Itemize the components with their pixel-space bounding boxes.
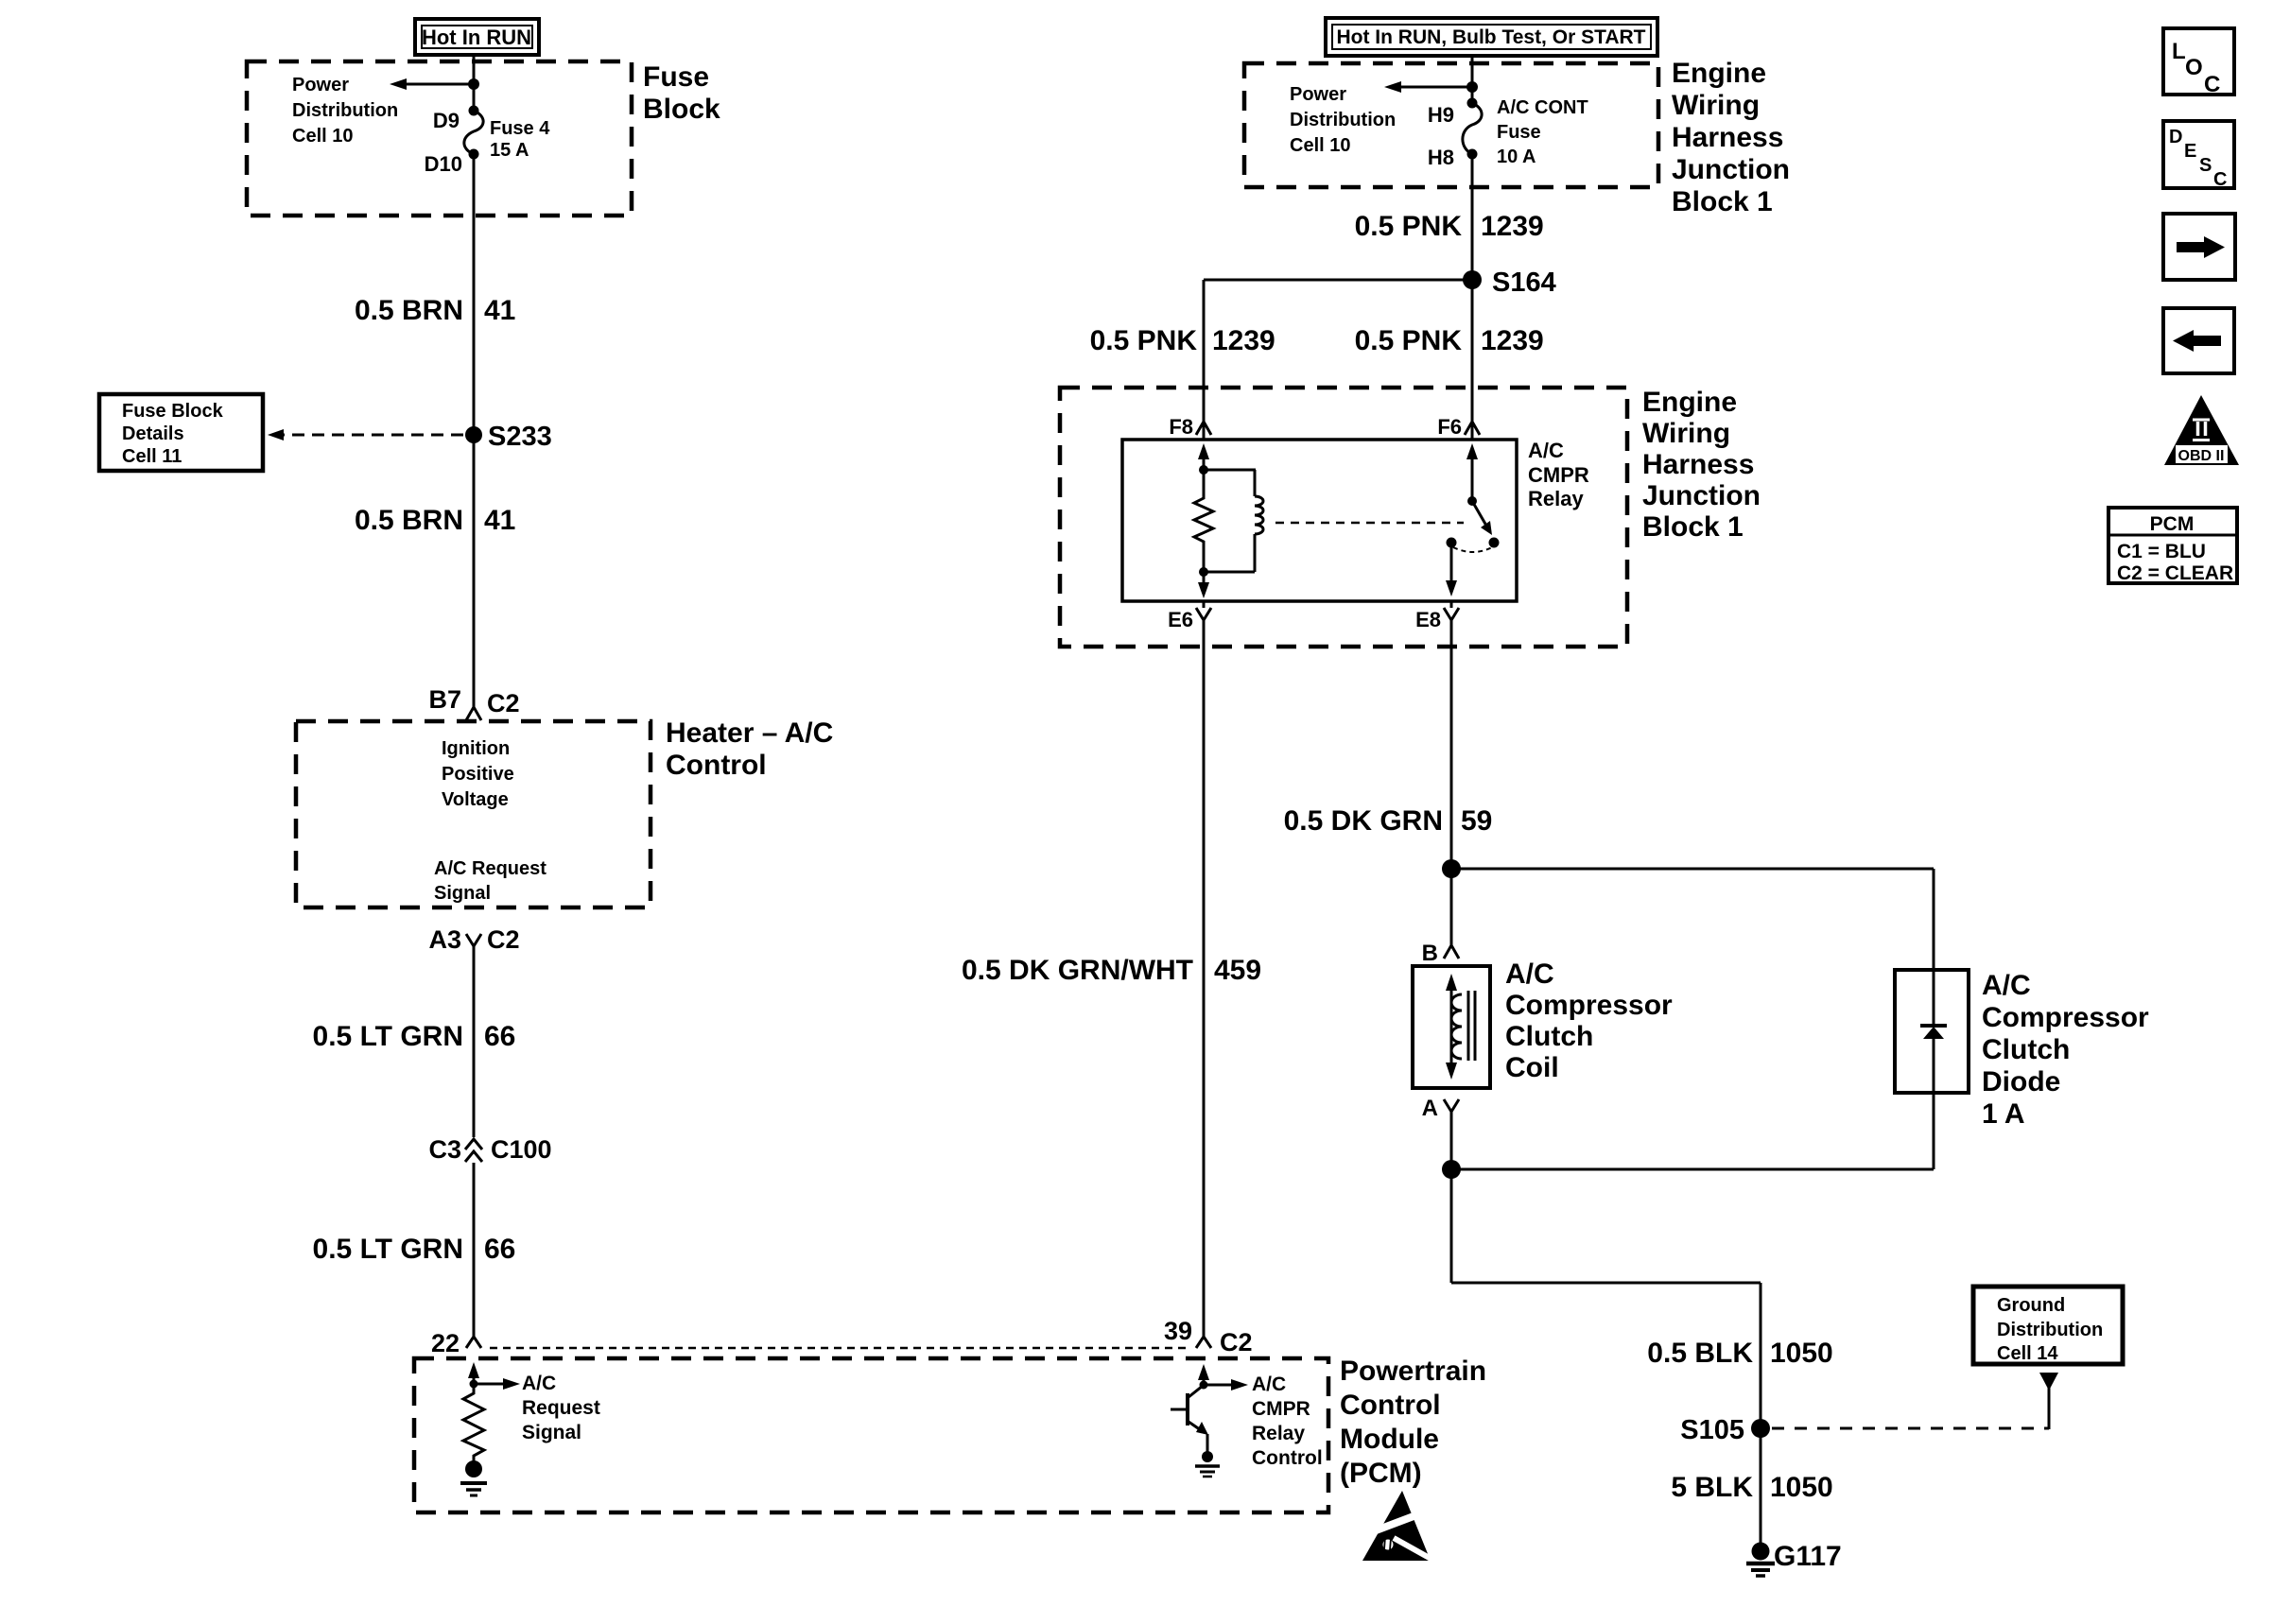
svg-text:C: C bbox=[2204, 72, 2220, 97]
svg-text:Hot In RUN: Hot In RUN bbox=[422, 26, 531, 49]
svg-text:41: 41 bbox=[484, 295, 515, 326]
svg-text:Distribution: Distribution bbox=[292, 100, 398, 121]
svg-text:PCM: PCM bbox=[2150, 513, 2195, 535]
wire 0.5 PNK 1239 (fuse to S164) bbox=[1471, 154, 1474, 280]
svg-text:59: 59 bbox=[1461, 805, 1492, 837]
svg-text:A/C: A/C bbox=[1252, 1373, 1286, 1395]
svg-text:H9: H9 bbox=[1428, 103, 1454, 127]
relay common input arrow (F6 side) bbox=[1466, 443, 1478, 506]
svg-text:C3: C3 bbox=[428, 1135, 461, 1164]
svg-text:Cell 14: Cell 14 bbox=[1997, 1343, 2058, 1364]
wire 0.5 LT GRN 66 (C100 to PCM pin 22) bbox=[473, 1163, 476, 1337]
svg-text:F8: F8 bbox=[1169, 415, 1193, 439]
svg-text:Fuse Block: Fuse Block bbox=[122, 401, 224, 422]
svg-text:0.5 PNK: 0.5 PNK bbox=[1355, 325, 1463, 356]
svg-text:A3: A3 bbox=[428, 925, 461, 954]
svg-text:A/C: A/C bbox=[522, 1373, 556, 1394]
svg-text:E8: E8 bbox=[1415, 608, 1441, 631]
icon arrow right bbox=[2163, 214, 2235, 280]
svg-text:D9: D9 bbox=[433, 109, 460, 132]
label box Fuse Block Details Cell 11 bbox=[99, 394, 263, 471]
svg-text:Diode: Diode bbox=[1982, 1066, 2060, 1097]
svg-text:1050: 1050 bbox=[1770, 1338, 1833, 1369]
svg-text:Power: Power bbox=[1290, 84, 1346, 105]
svg-text:Coil: Coil bbox=[1505, 1052, 1559, 1083]
svg-text:C2: C2 bbox=[487, 689, 520, 717]
svg-text:C2 = CLEAR: C2 = CLEAR bbox=[2117, 562, 2233, 584]
relay contact dots and travel arc bbox=[1447, 538, 1500, 553]
svg-text:22: 22 bbox=[431, 1329, 460, 1357]
svg-text:Fuse: Fuse bbox=[643, 61, 709, 93]
svg-text:39: 39 bbox=[1164, 1317, 1192, 1345]
A/C compressor clutch coil box bbox=[1413, 966, 1490, 1088]
svg-text:Compressor: Compressor bbox=[1505, 990, 1673, 1021]
connector C3 / C100 bbox=[428, 1135, 551, 1164]
dashed reference line to Ground Distribution bbox=[1772, 1427, 2049, 1430]
connector line C2 between pin 22 and pin 39 bbox=[490, 1347, 1191, 1350]
ground (PCM internal, left) bbox=[460, 1460, 487, 1495]
wire branch from S164 to left bbox=[1204, 279, 1472, 282]
svg-text:B: B bbox=[1422, 941, 1438, 966]
svg-text:(PCM): (PCM) bbox=[1340, 1458, 1422, 1489]
node: junction dot to power distribution bbox=[468, 78, 479, 90]
svg-text:Clutch: Clutch bbox=[1982, 1034, 2070, 1065]
svg-text:15 A: 15 A bbox=[490, 140, 529, 161]
svg-text:Distribution: Distribution bbox=[1290, 110, 1396, 130]
relay coil input arrow (F8 side) bbox=[1198, 443, 1209, 475]
svg-text:D10: D10 bbox=[425, 152, 462, 176]
transistor Q (relay driver) bbox=[1171, 1386, 1208, 1452]
svg-text:Signal: Signal bbox=[522, 1422, 581, 1443]
connector A3 / C2 bbox=[428, 925, 519, 954]
svg-text:Ground: Ground bbox=[1997, 1295, 2065, 1316]
svg-text:41: 41 bbox=[484, 505, 515, 536]
svg-text:S164: S164 bbox=[1492, 268, 1556, 298]
power feed label "Hot In RUN" bbox=[415, 19, 539, 55]
svg-text:E6: E6 bbox=[1168, 608, 1193, 631]
svg-text:0.5 DK GRN/WHT: 0.5 DK GRN/WHT bbox=[962, 955, 1193, 986]
svg-text:0.5 LT GRN: 0.5 LT GRN bbox=[313, 1234, 463, 1265]
svg-text:Block 1: Block 1 bbox=[1642, 511, 1744, 543]
svg-text:Compressor: Compressor bbox=[1982, 1002, 2149, 1033]
splice S164 bbox=[1463, 270, 1482, 289]
wire: down into junction block 1 bbox=[1471, 56, 1474, 103]
clutch coil symbol (arrow, winding, core) bbox=[1446, 974, 1475, 1080]
wire arrow to Power Distribution bbox=[1401, 86, 1472, 89]
wire 0.5 PNK 1239 (right branch down to relay F6) bbox=[1471, 280, 1474, 440]
connector pin 22 bbox=[431, 1329, 481, 1357]
svg-text:0.5 DK GRN: 0.5 DK GRN bbox=[1284, 805, 1443, 837]
svg-text:Ignition: Ignition bbox=[442, 738, 510, 759]
svg-text:C100: C100 bbox=[491, 1135, 552, 1164]
svg-text:Engine: Engine bbox=[1642, 387, 1737, 418]
svg-text:CMPR: CMPR bbox=[1528, 463, 1589, 487]
resistor (A/C request pull-up) bbox=[463, 1384, 484, 1461]
svg-text:Heater – A/C: Heater – A/C bbox=[666, 717, 833, 749]
wire arrow to Power Distribution bbox=[407, 83, 474, 86]
pin E6 bbox=[1168, 601, 1211, 631]
svg-text:D: D bbox=[2169, 127, 2182, 147]
svg-text:S: S bbox=[2199, 155, 2212, 176]
svg-text:Wiring: Wiring bbox=[1672, 90, 1760, 121]
A/C CMPR relay control output (arrow and dot) bbox=[1198, 1364, 1248, 1391]
node: junction to diode branch (top) bbox=[1442, 859, 1461, 878]
wire 5 BLK 1050 (S105 to G117) bbox=[1760, 1428, 1762, 1547]
A/C CMPR relay box bbox=[1122, 440, 1517, 601]
svg-text:Power: Power bbox=[292, 75, 349, 95]
svg-text:Request: Request bbox=[522, 1397, 600, 1419]
svg-text:O: O bbox=[2185, 55, 2203, 80]
relay armature linkage (dashed) bbox=[1275, 522, 1464, 525]
engine wiring harness junction block 1 (dashed box) bbox=[1244, 63, 1658, 187]
svg-text:S105: S105 bbox=[1680, 1415, 1744, 1445]
ESD sensitivity symbol bbox=[1362, 1491, 1434, 1561]
svg-text:Block: Block bbox=[643, 94, 720, 125]
svg-text:Distribution: Distribution bbox=[1997, 1320, 2103, 1340]
svg-text:Hot In RUN, Bulb Test, Or STAR: Hot In RUN, Bulb Test, Or START bbox=[1336, 26, 1645, 48]
icon LOC bbox=[2163, 28, 2234, 97]
svg-text:F6: F6 bbox=[1437, 415, 1462, 439]
svg-text:Relay: Relay bbox=[1252, 1423, 1305, 1444]
relay coil output arrow (E6 side) bbox=[1198, 567, 1209, 598]
wire 0.5 DK GRN/WHT 459 (E6 to PCM pin 39) bbox=[1203, 620, 1206, 1337]
svg-text:C2: C2 bbox=[487, 925, 520, 954]
ground G117 bbox=[1746, 1541, 1842, 1576]
wire 0.5 DK GRN 59 (E8 to clutch coil) bbox=[1450, 620, 1453, 947]
svg-text:Positive: Positive bbox=[442, 764, 514, 785]
svg-text:0.5 PNK: 0.5 PNK bbox=[1355, 211, 1463, 242]
relay coil winding bbox=[1204, 470, 1263, 572]
svg-text:A/C: A/C bbox=[1982, 970, 2031, 1001]
svg-text:A: A bbox=[1422, 1096, 1438, 1121]
svg-text:0.5 PNK: 0.5 PNK bbox=[1090, 325, 1198, 356]
svg-text:C2: C2 bbox=[1220, 1328, 1253, 1356]
splice S105 bbox=[1751, 1419, 1770, 1438]
svg-text:10 A: 10 A bbox=[1497, 147, 1536, 167]
connector B7 / C2 bbox=[428, 685, 519, 720]
svg-text:Cell 10: Cell 10 bbox=[292, 126, 353, 147]
svg-text:L: L bbox=[2172, 39, 2186, 64]
svg-text:1239: 1239 bbox=[1481, 325, 1544, 356]
svg-text:B7: B7 bbox=[428, 685, 461, 714]
pin F6 bbox=[1437, 415, 1480, 439]
svg-text:A/C CONT: A/C CONT bbox=[1497, 97, 1588, 118]
svg-text:1239: 1239 bbox=[1212, 325, 1275, 356]
svg-text:Clutch: Clutch bbox=[1505, 1021, 1593, 1052]
svg-text:C1 = BLU: C1 = BLU bbox=[2117, 541, 2206, 562]
svg-text:H8: H8 bbox=[1428, 146, 1454, 169]
relay resistor (parallel with coil) bbox=[1194, 470, 1213, 572]
svg-text:1239: 1239 bbox=[1481, 211, 1544, 242]
svg-text:Junction: Junction bbox=[1672, 154, 1790, 185]
svg-text:Cell 11: Cell 11 bbox=[122, 446, 182, 467]
node: junction to diode branch (bottom) bbox=[1442, 1160, 1461, 1179]
svg-text:Block 1: Block 1 bbox=[1672, 186, 1773, 217]
wire to diode (top) bbox=[1451, 868, 1934, 871]
svg-text:Powertrain: Powertrain bbox=[1340, 1356, 1486, 1387]
power feed label "Hot In RUN, Bulb Test, Or START" bbox=[1326, 18, 1657, 56]
engine wiring harness junction block 1 (dashed box, relay) bbox=[1060, 388, 1627, 647]
svg-text:Control: Control bbox=[1340, 1390, 1441, 1421]
icon arrow left bbox=[2163, 308, 2234, 373]
svg-text:Module: Module bbox=[1340, 1424, 1439, 1455]
svg-text:Wiring: Wiring bbox=[1642, 418, 1730, 449]
svg-text:E: E bbox=[2184, 141, 2196, 162]
svg-text:66: 66 bbox=[484, 1021, 515, 1052]
svg-text:Fuse 4: Fuse 4 bbox=[490, 118, 550, 139]
node: junction dot to power distribution bbox=[1466, 81, 1478, 93]
svg-text:Harness: Harness bbox=[1642, 449, 1754, 480]
svg-text:Relay: Relay bbox=[1528, 487, 1584, 510]
wire 0.5 LT GRN 66 (A3 to C100) bbox=[473, 946, 476, 1137]
Heater A/C Control (dashed box) bbox=[296, 721, 651, 907]
svg-text:G117: G117 bbox=[1774, 1541, 1842, 1572]
fuse Fuse 4 15 A bbox=[464, 106, 483, 160]
icon OBD II triangle bbox=[2164, 395, 2239, 465]
svg-text:Details: Details bbox=[122, 423, 184, 444]
wire: Hot In RUN down into fuse block bbox=[473, 55, 476, 111]
svg-text:1 A: 1 A bbox=[1982, 1098, 2025, 1130]
splice S233 bbox=[465, 426, 482, 443]
relay output arrow (E8 side) bbox=[1446, 543, 1457, 596]
svg-text:459: 459 bbox=[1214, 955, 1261, 986]
svg-text:CMPR: CMPR bbox=[1252, 1398, 1310, 1420]
svg-text:0.5 BRN: 0.5 BRN bbox=[355, 295, 463, 326]
wire 0.5 BRN 41 (fuse to S233) bbox=[473, 154, 476, 435]
A/C request signal input (arrow, resistor, ground) bbox=[468, 1362, 520, 1390]
svg-text:1050: 1050 bbox=[1770, 1472, 1833, 1503]
svg-text:Engine: Engine bbox=[1672, 58, 1766, 89]
svg-text:5 BLK: 5 BLK bbox=[1671, 1472, 1753, 1503]
svg-text:Voltage: Voltage bbox=[442, 789, 509, 810]
fuse A/C CONT 10 A bbox=[1463, 98, 1482, 160]
pin A (clutch coil) bbox=[1422, 1096, 1459, 1121]
icon PCM connector legend bbox=[2108, 508, 2237, 584]
svg-text:0.5 BRN: 0.5 BRN bbox=[355, 505, 463, 536]
dashed reference arrow to Fuse Block Details bbox=[284, 434, 463, 437]
wire 0.5 BLK 1050 (to S105) bbox=[1451, 1282, 1761, 1285]
svg-text:Fuse: Fuse bbox=[1497, 122, 1541, 143]
svg-text:Harness: Harness bbox=[1672, 122, 1783, 153]
wire from pin A down bbox=[1450, 1112, 1453, 1283]
svg-text:S233: S233 bbox=[488, 422, 552, 452]
A/C compressor clutch diode box bbox=[1895, 970, 1969, 1093]
wire 0.5 BRN 41 (S233 to B7) bbox=[473, 435, 476, 709]
svg-text:A/C Request: A/C Request bbox=[434, 858, 547, 879]
svg-text:A/C: A/C bbox=[1505, 959, 1554, 990]
svg-text:Signal: Signal bbox=[434, 883, 491, 904]
pin F8 bbox=[1169, 415, 1211, 439]
fuse block (dashed box) bbox=[247, 61, 632, 216]
ground (PCM internal, right) bbox=[1195, 1451, 1220, 1477]
icon DESC bbox=[2163, 121, 2234, 190]
svg-text:Cell 10: Cell 10 bbox=[1290, 135, 1350, 156]
svg-text:0.5 LT GRN: 0.5 LT GRN bbox=[313, 1021, 463, 1052]
svg-text:Control: Control bbox=[1252, 1447, 1323, 1469]
svg-text:OBD II: OBD II bbox=[2178, 448, 2225, 464]
svg-text:A/C: A/C bbox=[1528, 439, 1564, 462]
svg-text:Junction: Junction bbox=[1642, 480, 1761, 511]
pin B (clutch coil) bbox=[1422, 941, 1459, 966]
pin E8 bbox=[1415, 601, 1459, 631]
relay switch arm bbox=[1472, 501, 1492, 535]
wire from diode (bottom) bbox=[1933, 1093, 1935, 1169]
svg-text:C: C bbox=[2213, 169, 2227, 190]
svg-text:66: 66 bbox=[484, 1234, 515, 1265]
diode D (clutch diode) bbox=[1920, 970, 1947, 1093]
Powertrain Control Module (dashed box) bbox=[414, 1358, 1328, 1512]
connector pin 39 / C2 bbox=[1164, 1317, 1253, 1356]
label box Ground Distribution Cell 14 bbox=[1973, 1287, 2123, 1364]
svg-text:Control: Control bbox=[666, 750, 767, 781]
svg-text:0.5 BLK: 0.5 BLK bbox=[1647, 1338, 1753, 1369]
wire 0.5 PNK 1239 (left branch down to relay F8) bbox=[1203, 280, 1206, 440]
